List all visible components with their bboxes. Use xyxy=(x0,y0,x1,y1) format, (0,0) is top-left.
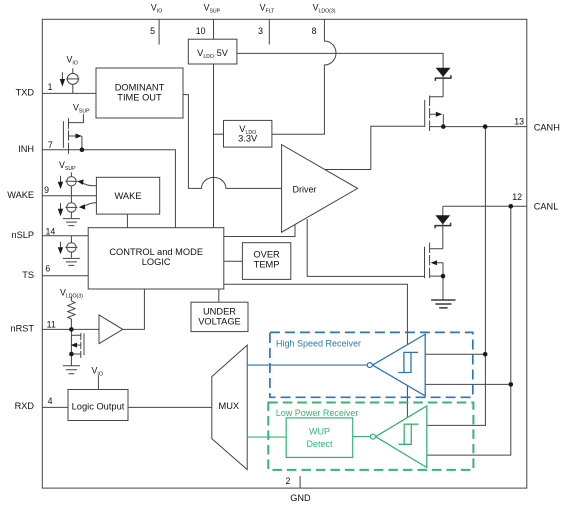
svg-text:nRST: nRST xyxy=(11,324,35,334)
svg-text:TEMP: TEMP xyxy=(254,260,280,270)
svg-text:10: 10 xyxy=(196,26,206,36)
svg-text:GND: GND xyxy=(290,493,311,503)
svg-text:3.3V: 3.3V xyxy=(238,133,258,143)
svg-text:VOLTAGE: VOLTAGE xyxy=(198,316,241,326)
svg-text:Logic Output: Logic Output xyxy=(72,402,125,412)
svg-text:Driver: Driver xyxy=(293,184,317,194)
svg-text:WUP: WUP xyxy=(309,426,330,436)
svg-text:9: 9 xyxy=(44,185,49,195)
svg-text:RXD: RXD xyxy=(15,401,35,411)
svg-text:4: 4 xyxy=(48,396,53,406)
svg-text:7: 7 xyxy=(48,140,53,150)
svg-text:High Speed Receiver: High Speed Receiver xyxy=(276,338,361,348)
svg-text:TXD: TXD xyxy=(16,87,35,97)
svg-text:12: 12 xyxy=(512,192,522,202)
svg-text:Low Power Receiver: Low Power Receiver xyxy=(276,408,359,418)
svg-text:MUX: MUX xyxy=(218,401,239,411)
svg-text:WAKE: WAKE xyxy=(114,191,141,201)
svg-text:14: 14 xyxy=(46,226,56,236)
svg-text:INH: INH xyxy=(18,144,34,154)
svg-text:TS: TS xyxy=(22,270,34,280)
svg-text:OVER: OVER xyxy=(253,249,280,259)
svg-text:5: 5 xyxy=(150,26,155,36)
svg-text:11: 11 xyxy=(47,319,56,329)
svg-text:2: 2 xyxy=(285,476,290,486)
svg-text:Detect: Detect xyxy=(306,439,333,449)
svg-text:TIME OUT: TIME OUT xyxy=(117,93,162,103)
svg-text:WAKE: WAKE xyxy=(7,190,34,200)
svg-text:nSLP: nSLP xyxy=(12,230,34,240)
svg-text:CONTROL and MODE: CONTROL and MODE xyxy=(109,247,203,257)
svg-text:UNDER: UNDER xyxy=(203,306,236,316)
svg-text:1: 1 xyxy=(48,82,53,92)
svg-text:6: 6 xyxy=(45,263,50,273)
svg-text:8: 8 xyxy=(312,26,317,36)
svg-text:LOGIC: LOGIC xyxy=(142,257,171,267)
svg-text:DOMINANT: DOMINANT xyxy=(115,83,165,93)
svg-text:13: 13 xyxy=(514,116,524,126)
svg-text:CANH: CANH xyxy=(534,122,560,132)
svg-text:3: 3 xyxy=(258,26,263,36)
svg-text:CANL: CANL xyxy=(534,202,559,212)
